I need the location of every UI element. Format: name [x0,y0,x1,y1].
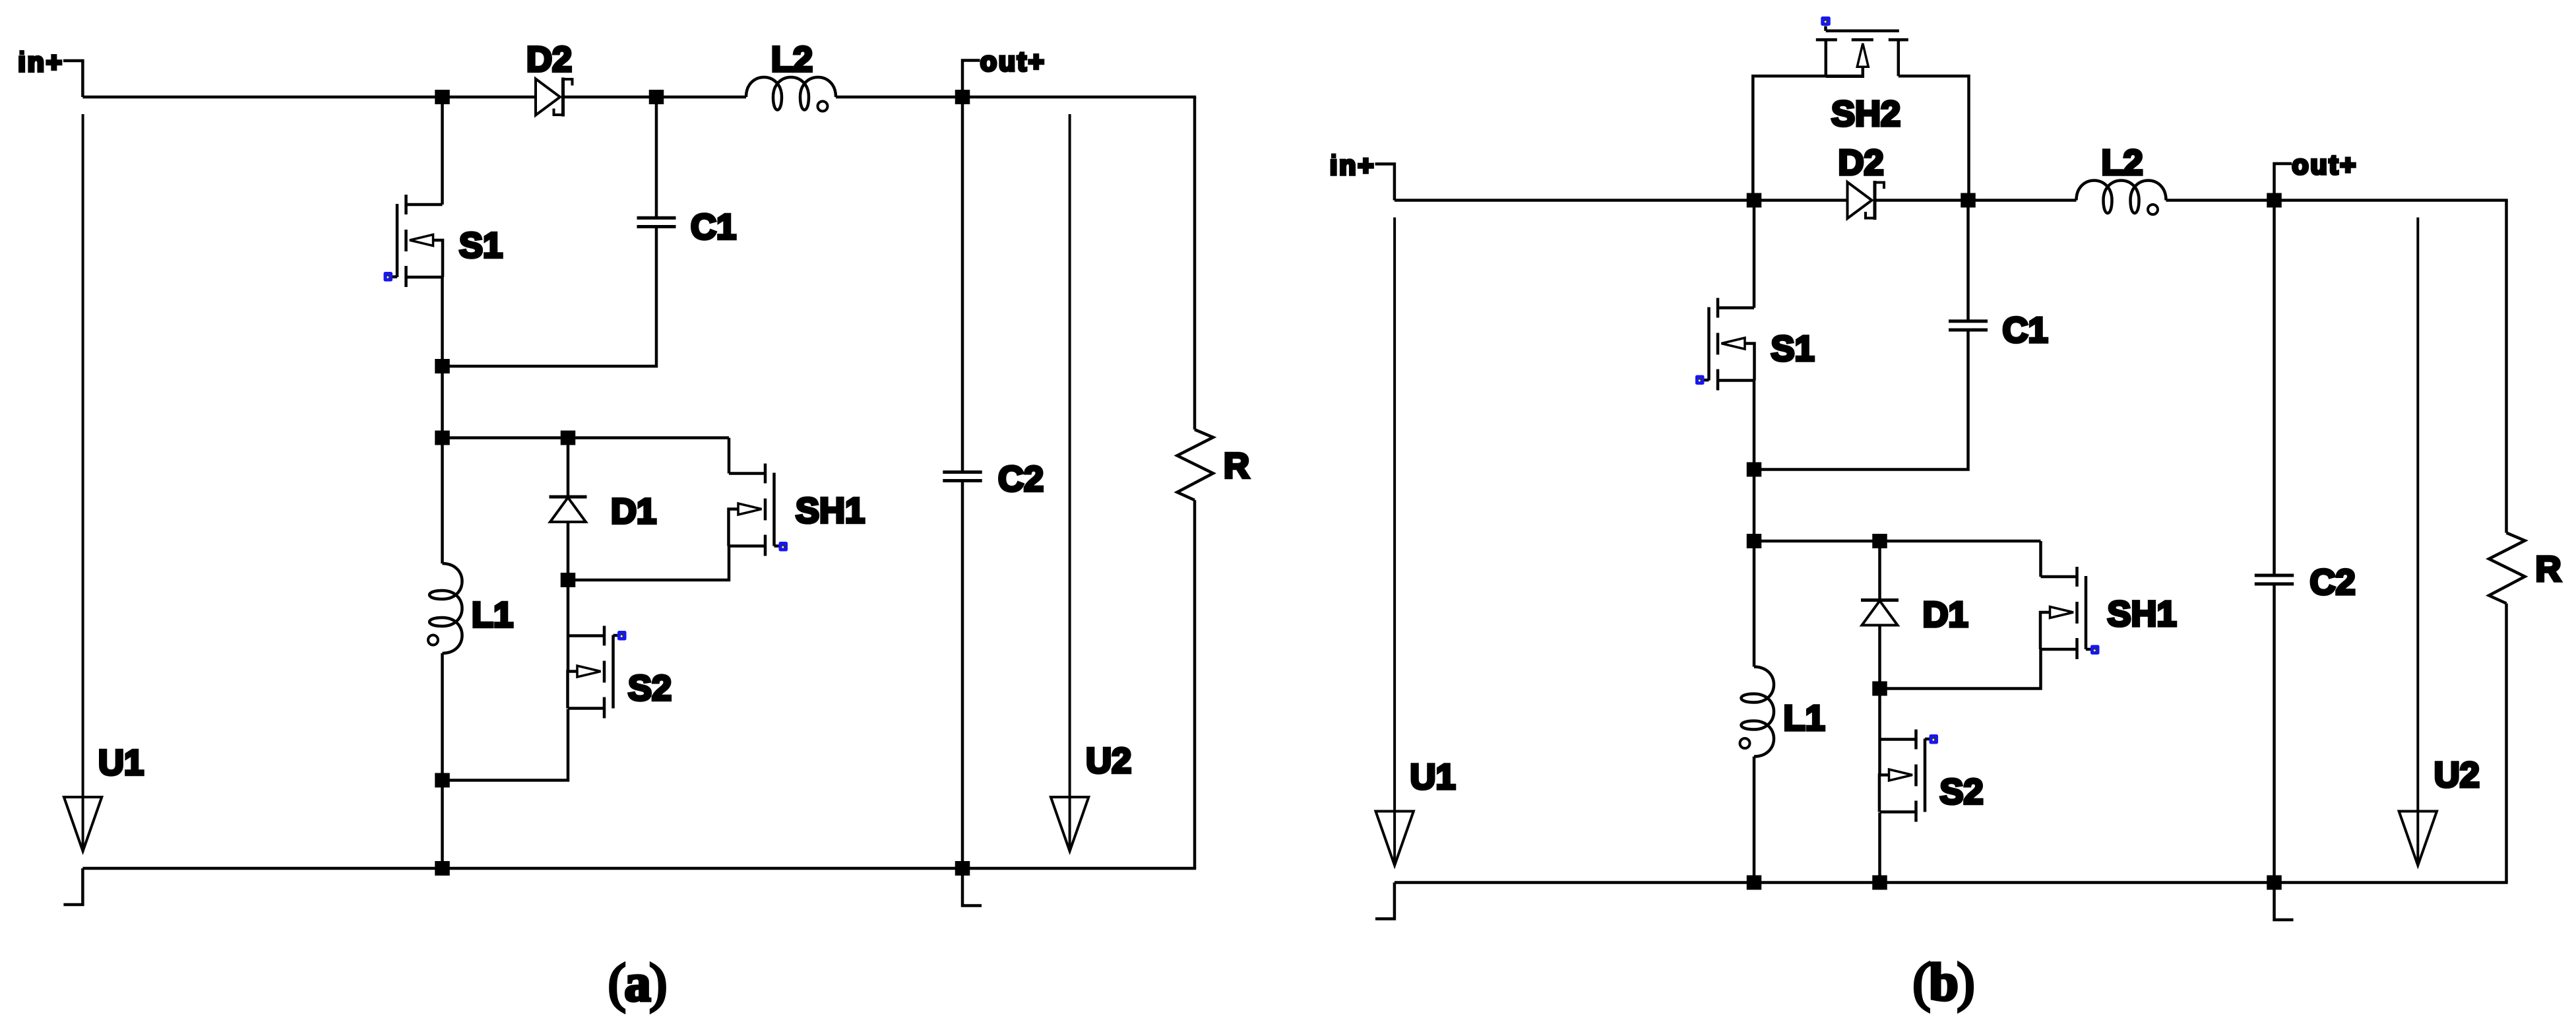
wire mid row to SH1 (a) [443,436,730,439]
wire jog node to bottom rail (a) [441,781,444,869]
wire R bottom (b) [2505,604,2508,883]
svg-text:L1: L1 [1784,699,1825,738]
svg-text:U2: U2 [2434,755,2480,795]
mosfet S1 (b) [1709,298,1755,391]
wire bottom rail (b) [1395,881,2508,884]
voltage source U1 arrow (b) [1393,218,1396,866]
wire top rail D2 to L2 (a) [565,96,746,99]
port in+ stub (b) [1375,164,1395,201]
junction node S1-C1 return (b) [1747,463,1762,477]
junction node bottom-mid (a) [435,861,450,876]
wire C2 bottom (b) [2273,584,2276,883]
wire D1 anode top (b) [1878,541,1881,600]
wire L1 bottom to jog node (a) [441,653,444,781]
port in- stub (b) [1375,883,1395,919]
wire C1 bottom (a) [443,226,657,366]
junction node S1-C1 return (a) [435,359,450,373]
wire top rail D2 to L2 (b) [1877,199,2077,202]
wire S1 drain (a) [441,97,444,205]
svg-text:C2: C2 [998,459,1044,499]
svg-text:D2: D2 [1838,143,1884,183]
svg-text:R: R [2536,550,2561,589]
svg-text:L1: L1 [472,595,513,635]
svg-text:U1: U1 [98,743,144,783]
wire L1 top (b) [1753,541,1756,667]
wire D1 bottom (a) [567,522,570,580]
wire top rail L2 to R (b) [2166,199,2508,202]
svg-text:(b): (b) [1913,954,1974,1012]
svg-text:L2: L2 [771,40,813,79]
gate port SH2 (b) [1824,26,1827,31]
inductor L2 (b) [2077,181,2166,215]
port out- stub (b) [2275,883,2294,920]
svg-text:C1: C1 [691,207,736,247]
wire top rail L2 to R (a) [836,96,1196,99]
wire C2 top (b) [2273,201,2276,576]
diode D2 (a) [536,78,573,117]
wire R bottom (a) [1193,500,1197,868]
inductor L2 (a) [746,77,836,112]
capacitor C2 (b) [2255,574,2294,577]
junction node jog (a) [435,773,450,788]
port out+ stub (b) [2275,164,2292,201]
junction node rail-S1 (a) [435,90,450,104]
svg-text:S2: S2 [628,668,672,708]
wire S1 source to node (b) [1753,381,1756,470]
svg-text:out+: out+ [2292,150,2358,180]
svg-text:U1: U1 [1410,757,1456,797]
wire D1 anode top (a) [567,438,570,498]
gate port S2 (a) [613,634,619,637]
wire SH2 source horizontal and left leg (b) [1753,76,1863,201]
mosfet S2 (a) [568,626,613,719]
wire mid row to SH1 (b) [1754,540,2041,543]
svg-text:C1: C1 [2003,311,2048,350]
wire C2 top (a) [961,97,964,472]
gate port S2 (b) [1925,738,1930,741]
svg-text:ın+: ın+ [1330,150,1375,181]
diode D2 (b) [1848,181,1885,220]
wire S2 drain to rail (b) [1878,813,1881,883]
wire SH1 source to D1 row (b) [1880,649,2041,689]
wire D1 bottom (b) [1878,626,1881,689]
wire SH1 source to D1 row (a) [568,546,729,581]
wire S1 drain (b) [1753,201,1756,308]
svg-text:L2: L2 [2102,143,2143,183]
svg-text:C2: C2 [2310,563,2356,602]
mosfet S1 (a) [397,195,443,287]
svg-text:out+: out+ [980,46,1046,77]
wire SH1 drain leg (b) [2039,541,2042,577]
diode D1 (a) [550,497,587,522]
svg-text:U2: U2 [1086,741,1131,781]
wire top rail left (a) [82,96,536,99]
svg-text:SH2: SH2 [1831,94,1901,134]
junction node S2-rail (b) [1872,876,1887,890]
wire R top (a) [1193,97,1197,430]
port in+ stub (a) [63,61,82,97]
voltmeter U2 arrow (a) [1069,114,1071,851]
svg-text:D1: D1 [1923,595,1968,635]
svg-text:(a): (a) [608,955,666,1013]
junction node D1 top (a) [561,431,576,445]
wire top rail left (b) [1395,199,1848,202]
junction node C2 bottom (a) [955,861,970,876]
svg-text:SH1: SH1 [796,491,865,530]
wire SH2 drain horizontal and right leg (b) [1899,76,1969,201]
wire L1 top (a) [441,438,444,564]
gate port SH1 (b) [2086,648,2091,651]
svg-text:S2: S2 [1940,772,1984,812]
capacitor C2 (a) [943,470,982,474]
wire S1-source to L1 node (a) [441,366,444,438]
svg-text:SH1: SH1 [2108,594,2177,634]
wire S2 source leg (a) [567,580,570,671]
junction node rail-S1 (b) [1747,193,1762,208]
wire S2 source leg (b) [1878,689,1881,775]
capacitor C1 (b) [1949,319,1988,323]
inductor L1 (a) [428,563,462,653]
wire C1 top (a) [655,97,658,218]
svg-text:D1: D1 [611,492,656,531]
resistor R (b) [2489,533,2525,604]
wire C1 top (b) [1966,201,1970,322]
junction node D1 top (b) [1872,534,1887,548]
wire bottom rail (a) [82,867,1196,870]
gate port S1 (b) [1704,379,1709,382]
wire S1-source to L1 node (b) [1753,470,1756,542]
port out+ stub (a) [962,61,980,98]
svg-text:S1: S1 [1771,329,1815,369]
junction node mid row (a) [435,431,450,445]
junction node out+ (a) [955,90,970,104]
gate port S1 (a) [392,275,397,278]
port in- stub (a) [63,868,82,905]
junction node L1-rail (b) [1747,876,1762,890]
wire S1 source to node (a) [441,277,444,366]
svg-text:R: R [1224,446,1249,486]
wire C2 bottom (a) [961,481,964,869]
mosfet SH1 (a) [729,464,774,556]
svg-text:S1: S1 [459,226,503,265]
mosfet SH2 (b) [1816,31,1908,77]
port out- stub (a) [962,868,982,906]
svg-text:ın+: ın+ [18,47,63,77]
mosfet S2 (b) [1879,730,1925,822]
diode D1 (b) [1861,600,1899,626]
gate port SH1 (a) [774,544,780,548]
junction node C2 bottom (b) [2267,876,2282,890]
wire jog to S2 drain (a) [443,709,569,781]
wire R top (b) [2505,201,2508,533]
inductor L1 (b) [1740,667,1775,757]
voltage source U1 arrow (a) [82,114,84,851]
wire C1 bottom (b) [1754,330,1968,470]
junction node D1 bottom (b) [1872,682,1887,696]
junction node D1 bottom (a) [561,573,576,587]
resistor R (a) [1178,430,1214,500]
capacitor C1 (a) [637,216,676,220]
junction node rail-C1 (a) [649,90,664,104]
wire SH1 drain leg (a) [728,438,731,474]
voltmeter U2 arrow (b) [2416,218,2419,866]
junction node out+ (b) [2267,193,2282,208]
junction node rail-C1 (b) [1961,193,1976,208]
svg-text:D2: D2 [526,40,572,79]
wire L1 bottom to rail (b) [1753,757,1756,883]
mosfet SH1 (b) [2040,567,2086,659]
junction node mid row (b) [1747,534,1762,548]
